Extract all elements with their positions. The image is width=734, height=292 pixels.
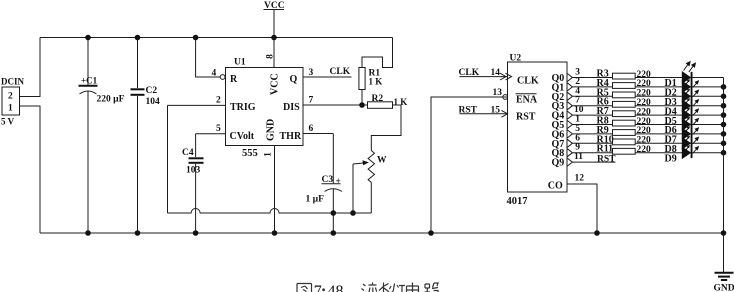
svg-text:RST: RST bbox=[516, 112, 536, 123]
svg-text:THR: THR bbox=[280, 131, 302, 142]
potentiometer W zigzag bbox=[368, 151, 387, 183]
svg-text:+: + bbox=[336, 177, 341, 187]
wire 4017 Q4 pin 10 bbox=[552, 105, 613, 122]
svg-text:220: 220 bbox=[637, 145, 652, 155]
node LED D8 cathode bus bbox=[721, 141, 727, 147]
wire 4017 CO pin 12 to GND rail bbox=[567, 174, 597, 233]
resistor R6 220 bbox=[597, 97, 683, 108]
wire 555 pin4 reset to VCC rail bbox=[196, 38, 221, 78]
LED notch arrow bbox=[685, 126, 691, 133]
svg-text:4017: 4017 bbox=[507, 196, 528, 207]
LED D7 bbox=[682, 127, 724, 140]
svg-text:5: 5 bbox=[216, 124, 221, 134]
resistor R9 220 bbox=[597, 125, 683, 136]
svg-text:1: 1 bbox=[8, 104, 13, 114]
svg-text:2: 2 bbox=[216, 96, 221, 106]
wire DCIN pin2 to VCC rail bbox=[20, 38, 41, 97]
wire 4017 Q1 pin 2 bbox=[552, 77, 613, 94]
wire 555 pin8 VCC bbox=[273, 38, 275, 68]
svg-text:RST: RST bbox=[597, 154, 616, 164]
svg-text:+C1: +C1 bbox=[81, 76, 98, 86]
wire VCC rail to R1 top bbox=[362, 38, 393, 68]
svg-text:7: 7 bbox=[309, 96, 314, 106]
resistor R11 220 bbox=[597, 144, 683, 155]
svg-text:U1: U1 bbox=[234, 58, 246, 68]
op-amp U1 555 timer body bbox=[226, 58, 304, 160]
svg-text:6: 6 bbox=[309, 124, 314, 134]
svg-text:C2: C2 bbox=[146, 86, 158, 96]
node pin4 rail junction bbox=[193, 35, 199, 41]
wire 555 pin1 GND to rail bbox=[274, 146, 276, 234]
LED D1 bbox=[682, 61, 724, 84]
connector J1 DCIN bbox=[1, 77, 25, 127]
resistor R7 220 bbox=[597, 106, 683, 117]
wire R2 to potentiometer top bbox=[371, 105, 401, 151]
svg-text:5 V: 5 V bbox=[1, 117, 15, 127]
wire 4017 Q6 pin 5 bbox=[552, 124, 613, 141]
svg-text:1 µF: 1 µF bbox=[306, 195, 325, 205]
wire R1 bottom to DIS bbox=[361, 90, 363, 106]
net label CLK, wire to pin 14 bbox=[459, 68, 512, 80]
resistor R2 1K bbox=[368, 94, 408, 108]
capacitor C3 1uF electrolytic bbox=[306, 134, 343, 234]
svg-text:48: 48 bbox=[328, 283, 344, 292]
node C2 gnd rail bbox=[135, 230, 141, 236]
wire GND bottom rail bbox=[40, 232, 724, 234]
node C3 gnd rail bbox=[331, 230, 337, 236]
resistor R10 220 bbox=[597, 134, 683, 145]
capacitor C4 103 bbox=[182, 134, 204, 233]
svg-text:1: 1 bbox=[264, 152, 274, 157]
svg-text:4: 4 bbox=[212, 69, 217, 79]
svg-text:DCIN: DCIN bbox=[1, 77, 25, 87]
wire TRIG loop down bbox=[167, 105, 169, 213]
wire TRIG/THR timing node with hops bbox=[168, 209, 372, 214]
svg-text:12: 12 bbox=[575, 174, 585, 184]
wire DCIN pin1 to GND rail bbox=[20, 106, 41, 233]
node C3 junction bbox=[331, 210, 337, 216]
wire VCC top rail bbox=[40, 37, 393, 39]
svg-text:D9: D9 bbox=[665, 153, 677, 164]
svg-text:GND: GND bbox=[714, 284, 734, 292]
LED notch arrow bbox=[685, 145, 691, 152]
LED D2 bbox=[682, 80, 724, 93]
wire 4017 Q3 pin 7 bbox=[552, 96, 613, 113]
capacitor C1 220uF electrolytic bbox=[79, 38, 125, 234]
pin number 5, wire CVolt bbox=[196, 124, 226, 134]
LED cathode bar strip bbox=[691, 72, 693, 158]
net label RST, wire to pin 15 bbox=[459, 106, 508, 118]
svg-text:U2: U2 bbox=[510, 54, 522, 64]
pin number 2, wire TRIG bbox=[168, 96, 226, 106]
LED D3 bbox=[682, 90, 724, 103]
power symbol VCC bbox=[264, 1, 285, 38]
node bus gnd rail bbox=[721, 230, 727, 236]
svg-text:11: 11 bbox=[574, 152, 583, 162]
LED D4 bbox=[682, 99, 724, 112]
LED D9 bbox=[682, 146, 724, 159]
svg-text:2: 2 bbox=[8, 92, 13, 102]
svg-text:DIS: DIS bbox=[283, 102, 300, 113]
counter U2 4017 body bbox=[507, 54, 568, 208]
node C4 gnd rail bbox=[193, 230, 199, 236]
pin number 6, wire THR bbox=[303, 124, 333, 134]
svg-text:R2: R2 bbox=[372, 94, 384, 104]
svg-text:C3: C3 bbox=[322, 175, 334, 185]
svg-text:C4: C4 bbox=[182, 148, 194, 158]
svg-text:CVolt: CVolt bbox=[230, 131, 255, 142]
pin number 3, wire Q output, net CLK bbox=[303, 67, 352, 78]
node C1 gnd rail bbox=[85, 230, 91, 236]
svg-text:7: 7 bbox=[314, 283, 322, 292]
wire 4017 Q2 pin 4 bbox=[552, 86, 613, 103]
potentiometer W wiper arrow bbox=[353, 160, 369, 213]
svg-text:103: 103 bbox=[186, 166, 201, 176]
wire 4017 Q7 pin 6 bbox=[552, 133, 613, 150]
svg-text:CLK: CLK bbox=[517, 76, 539, 87]
node VCC rail junction bbox=[271, 35, 277, 41]
svg-text:R: R bbox=[230, 74, 238, 85]
node LED D4 cathode bus bbox=[721, 103, 727, 109]
svg-text:555: 555 bbox=[242, 148, 258, 159]
svg-text:W: W bbox=[377, 156, 387, 166]
node wiper junction bbox=[350, 210, 356, 216]
LED notch arrow bbox=[685, 79, 691, 86]
ground symbol GND bbox=[714, 233, 734, 292]
LED notch arrow bbox=[685, 88, 691, 95]
caption 图7.48 流水灯电路 (bottom-cropped) bbox=[297, 284, 312, 292]
node C2 top rail bbox=[135, 35, 141, 41]
svg-text:104: 104 bbox=[146, 97, 161, 107]
LED notch arrow bbox=[685, 107, 691, 114]
wire ENA pin13 to GND rail bbox=[431, 88, 508, 233]
svg-text:220 µF: 220 µF bbox=[97, 95, 125, 105]
svg-text:ENA: ENA bbox=[516, 95, 538, 106]
node ENA gnd rail bbox=[428, 230, 434, 236]
LED notch arrow bbox=[685, 135, 691, 142]
LED notch arrow bbox=[685, 116, 691, 123]
LED D8 bbox=[682, 137, 724, 150]
svg-text:CLK: CLK bbox=[330, 67, 351, 77]
svg-text:GND: GND bbox=[266, 119, 277, 141]
pin number 7, wire DIS bbox=[303, 96, 368, 106]
node LED D3 cathode bus bbox=[721, 94, 727, 100]
wire 4017 Q9 pin 11 bbox=[552, 152, 616, 169]
node LED D9 cathode bus bbox=[721, 150, 727, 156]
svg-text:CO: CO bbox=[548, 181, 563, 192]
wire LED cathode bus bbox=[723, 78, 725, 234]
node R1/R2/DIS junction bbox=[359, 102, 365, 108]
wire 4017 Q5 pin 1 bbox=[552, 115, 613, 132]
resistor R3 220 bbox=[597, 69, 683, 80]
svg-text:TRIG: TRIG bbox=[230, 102, 256, 113]
resistor R5 220 bbox=[597, 87, 683, 98]
node LED D5 cathode bus bbox=[721, 112, 727, 118]
svg-text:VCC: VCC bbox=[270, 73, 281, 95]
wire pot bottom bbox=[370, 182, 372, 213]
node LED D2 cathode bus bbox=[721, 84, 727, 90]
LED notch arrow bbox=[685, 98, 691, 105]
node 555 gnd rail bbox=[272, 230, 278, 236]
pin bubble 555 pin4 bbox=[220, 75, 225, 80]
node LED D6 cathode bus bbox=[721, 122, 727, 128]
svg-text:1 K: 1 K bbox=[369, 77, 383, 87]
resistor R4 220 bbox=[597, 78, 683, 89]
resistor R1 1K bbox=[359, 68, 382, 90]
LED D6 bbox=[682, 118, 724, 131]
svg-text:Q: Q bbox=[290, 74, 298, 85]
capacitor C2 104 bbox=[131, 38, 161, 234]
node C1 top rail bbox=[85, 35, 91, 41]
svg-text:R11: R11 bbox=[597, 144, 614, 155]
node CO gnd rail bbox=[594, 230, 600, 236]
wire 4017 Q8 pin 9 bbox=[552, 143, 613, 160]
resistor R8 220 bbox=[597, 116, 683, 127]
svg-text:Q9: Q9 bbox=[552, 158, 565, 169]
node LED D7 cathode bus bbox=[721, 131, 727, 137]
wire 4017 Q0 pin 3 bbox=[552, 68, 613, 85]
LED D5 bbox=[682, 108, 724, 121]
